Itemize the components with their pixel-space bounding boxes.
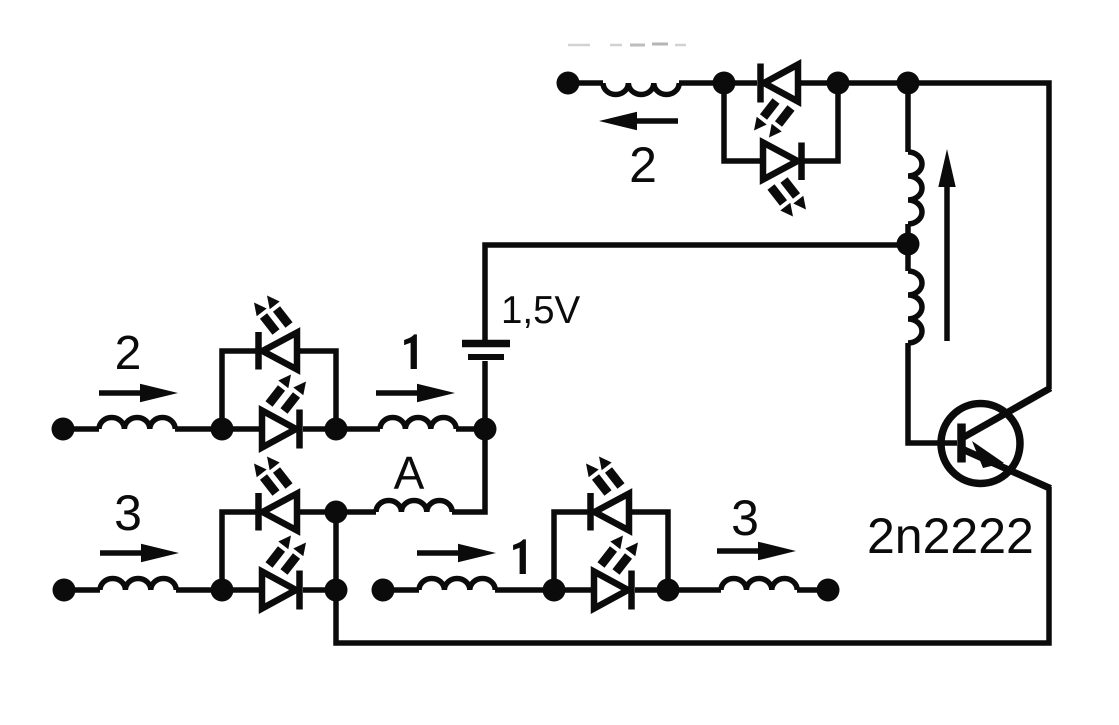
svg-text:2n2222: 2n2222 <box>867 508 1034 564</box>
svg-text:A: A <box>394 447 425 499</box>
svg-text:2: 2 <box>629 137 657 193</box>
svg-text:1,5V: 1,5V <box>501 289 581 332</box>
svg-text:3: 3 <box>114 485 142 541</box>
svg-text:2: 2 <box>115 327 142 380</box>
svg-text:3: 3 <box>731 490 759 546</box>
